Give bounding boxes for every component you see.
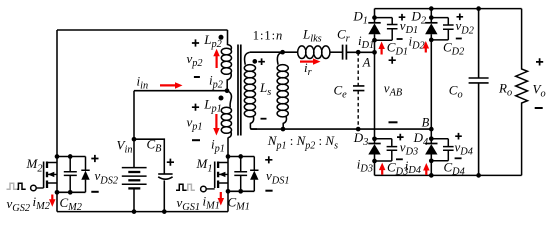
red arrow i_in: [160, 84, 177, 86]
capacitor CD4: [431, 139, 453, 161]
node A wire and dot: [372, 50, 377, 55]
wire: M2 drain/source vertical leg: [56, 30, 58, 212]
transformer core: [238, 45, 241, 136]
label + Lp2: [192, 39, 199, 46]
wire i_in horizontal: [134, 90, 227, 92]
junction dot secondary top: [280, 50, 285, 55]
wire: top rail from M2 drain to Lp2: [57, 29, 228, 31]
diode D2: [425, 22, 437, 24]
gate pulse waveform vGS1 (black then gray): [176, 184, 187, 190]
phase dot Lp1: [219, 96, 224, 101]
winding Ns (ideal transformer secondary): [245, 52, 250, 64]
resistor Ro: [516, 9, 528, 176]
label + vD1 -: [399, 14, 406, 21]
inductor Llks: [298, 46, 306, 59]
label - ip2: [194, 76, 200, 78]
label + Vo -: [536, 58, 543, 65]
junction dot secondary bottom: [281, 127, 286, 132]
red arrow ip2: [216, 55, 218, 68]
body diode of M1: [250, 157, 258, 192]
MOSFET M2: [43, 162, 45, 189]
diode D3: [372, 136, 377, 141]
red arrow i_r: [300, 60, 315, 62]
gate pulse waveform vGS2 (gray then black): [7, 183, 18, 189]
capacitor CM1: [234, 157, 247, 192]
label + vDS1 -: [265, 156, 272, 163]
winding Lp1: [227, 91, 231, 108]
capacitor Ce (dashed equivalent): [356, 50, 361, 55]
top rail secondary: [375, 8, 522, 10]
leg A to D3: [374, 52, 376, 139]
secondary top wire: [250, 51, 297, 53]
winding Ls (magnetizing): [277, 52, 282, 64]
M2 group bottom wire: [57, 191, 86, 193]
bridge right leg (B): [429, 6, 434, 11]
red arrow iM1: [220, 192, 222, 200]
body diode of M2: [81, 157, 89, 193]
svg-text:1 : 1 : n: 1 : 1 : n: [253, 29, 282, 43]
label - ip1: [192, 139, 200, 141]
secondary bottom wire to node B: [250, 128, 431, 130]
label + vD3 -: [397, 134, 404, 141]
diode D1: [368, 22, 380, 24]
capacitor Co: [476, 6, 481, 11]
M1 group top wire: [228, 156, 254, 158]
node B dot and label: [429, 127, 434, 132]
phase dot Lp2: [219, 35, 224, 40]
label + Lp1: [192, 104, 199, 111]
capacitor Cr: [343, 45, 347, 60]
label + vD4 -: [455, 133, 462, 140]
M2 group top wire: [57, 156, 86, 158]
MOSFET M1: [214, 162, 216, 189]
red arrow ip1: [215, 114, 217, 130]
capacitor CD2: [431, 18, 453, 40]
capacitor CD3: [375, 139, 398, 161]
svg-text:A: A: [362, 55, 371, 69]
bridge left leg (A): [374, 9, 376, 23]
capacitor CM2: [64, 157, 77, 193]
red arrow iM2: [51, 195, 53, 201]
M1 group bottom wire: [228, 190, 254, 192]
label + vDS2 -: [91, 155, 98, 162]
Vin source feed wire (i_in branch down): [133, 91, 135, 168]
plus of secondary winding: [258, 58, 265, 65]
minus of secondary winding: [261, 118, 267, 120]
label + vD2 -: [457, 14, 464, 21]
capacitor CB (electrolytic): [134, 139, 164, 174]
bottom rail primary: [57, 211, 228, 213]
diode D4: [425, 143, 437, 145]
battery Vin: [122, 167, 147, 169]
winding Lp2: [228, 30, 232, 50]
label vAB + -: [389, 57, 396, 64]
capacitor CD1: [375, 18, 398, 41]
center junction dot of primary windings: [225, 88, 230, 93]
svg-text:B: B: [422, 115, 430, 129]
phase dot Ns: [252, 59, 257, 64]
plus of CB: [167, 159, 174, 166]
bottom rail secondary: [375, 174, 522, 176]
M1 drain/source vertical leg: [227, 137, 229, 211]
